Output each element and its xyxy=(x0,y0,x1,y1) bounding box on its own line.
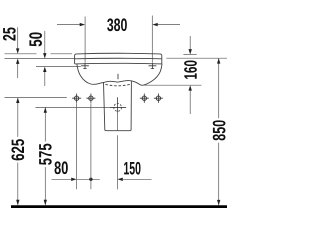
drain centerline to floor xyxy=(117,113,119,190)
drop line inner-left fixing to floor xyxy=(90,103,92,189)
label 850 xyxy=(213,120,226,140)
dimension 80 span line xyxy=(77,178,100,180)
dimension 160 upper stem xyxy=(189,36,191,50)
extension line tap hole (C) xyxy=(36,66,81,68)
washbasin bowl outline xyxy=(77,64,162,85)
dimension 80 tail line xyxy=(52,178,72,180)
pedestal hidden top edge (dashed) xyxy=(105,84,130,86)
extension line drain 575 ref xyxy=(35,106,126,108)
dimension 850 line upper xyxy=(218,58,220,118)
arrow right-pointing (80 left end) xyxy=(71,178,76,181)
tap hole cross left xyxy=(81,63,89,69)
arrow down-pointing (575 bottom at floor) xyxy=(44,200,47,205)
pedestal siphon cover xyxy=(104,81,132,131)
arrow up-pointing (625 top) xyxy=(16,98,19,103)
arrow up-pointing (25 bottom) xyxy=(16,59,19,64)
label 50 xyxy=(29,32,42,46)
arrow left-pointing (380 right) xyxy=(152,23,157,26)
label 150 xyxy=(124,162,140,175)
centerline tick above pedestal xyxy=(117,74,119,80)
floor line xyxy=(11,205,227,208)
fixing hole cross outer-left xyxy=(72,94,81,103)
washbasin rim mid line xyxy=(75,57,162,60)
arrow up-pointing (850 top at rim line) xyxy=(217,58,220,63)
tap hole cross right xyxy=(149,63,157,69)
fixing hole cross inner-left xyxy=(86,94,95,103)
arrow down-pointing (160 top) xyxy=(189,49,192,54)
extension line rim right 850 ref xyxy=(166,57,227,59)
junction dot 80/150 xyxy=(89,178,92,181)
dimension 50 lower stem xyxy=(44,72,46,87)
arrow down-pointing (50 top) xyxy=(43,53,46,58)
label 625 xyxy=(11,139,24,160)
extension line fixing holes 625 ref xyxy=(5,97,67,99)
label 25 xyxy=(3,28,16,41)
washbasin rim band outline xyxy=(75,53,162,64)
dimension 50 upper stem xyxy=(44,31,46,54)
extension line 380 right xyxy=(151,16,153,63)
arrow down-pointing (625 bottom at floor) xyxy=(16,200,19,205)
arrow up-pointing (160 bottom) xyxy=(189,85,192,90)
arrow up-pointing (50 bottom) xyxy=(43,67,46,72)
dimension 625 line lower xyxy=(17,163,19,206)
arrow down-pointing (25 top at rim line) xyxy=(16,48,19,53)
arrow right-pointing (380 left) xyxy=(80,23,85,26)
extension line rim top (A) xyxy=(5,53,73,55)
label 380 xyxy=(107,18,127,31)
drain cross xyxy=(110,97,126,113)
washbasin rim bottom line xyxy=(75,62,162,65)
extension line 160 bottom (bowl underside) xyxy=(143,84,201,86)
dimension 380 line right segment xyxy=(157,24,180,26)
label 575 xyxy=(39,144,52,165)
dimension 625 line upper xyxy=(17,98,19,137)
dimension 575 line lower xyxy=(44,167,46,205)
arrow up-pointing (575 top) xyxy=(44,107,47,112)
fixing hole cross inner-right xyxy=(140,94,149,103)
label 80 xyxy=(55,161,68,174)
drain dashed circle xyxy=(114,104,122,112)
dimension 160 lower stem xyxy=(189,90,191,114)
arrow down-pointing (850 bottom at floor) xyxy=(217,200,220,205)
fixing hole cross outer-right xyxy=(154,94,163,103)
label 160 xyxy=(184,61,197,79)
dimension 850 line lower xyxy=(218,143,220,206)
dimension 575 line upper xyxy=(44,107,46,141)
extension line 380 left xyxy=(84,17,86,63)
dimension 150 tail line xyxy=(123,178,152,180)
extension line rim mid left (B) xyxy=(5,58,75,60)
drop line outer-left fixing to floor xyxy=(76,103,78,189)
dimension 25 upper stem xyxy=(17,27,19,49)
dimension 25 lower stem xyxy=(17,63,19,78)
arrow left-pointing (150 at drain centerline) xyxy=(117,178,122,181)
dimension 380 line left segment xyxy=(57,24,81,26)
extension line 160 top xyxy=(183,54,196,56)
